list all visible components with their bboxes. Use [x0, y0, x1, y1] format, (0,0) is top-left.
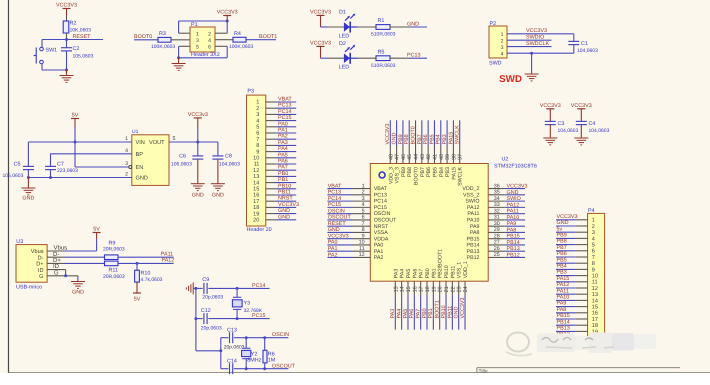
svg-text:PB9: PB9 [398, 134, 404, 144]
svg-text:R5: R5 [378, 49, 385, 55]
svg-text:VSS_3: VSS_3 [395, 167, 401, 184]
svg-text:OSCIN: OSCIN [374, 211, 391, 217]
svg-text:C4: C4 [589, 121, 596, 127]
svg-text:D-: D- [38, 255, 44, 261]
svg-text:ID: ID [38, 268, 44, 274]
svg-text:PA1: PA1 [328, 246, 338, 252]
svg-text:3: 3 [592, 230, 595, 236]
svg-text:GND: GND [507, 190, 519, 196]
svg-text:U1: U1 [132, 129, 139, 135]
svg-text:GND: GND [557, 220, 569, 226]
svg-text:12: 12 [592, 286, 598, 292]
svg-text:3: 3 [501, 45, 504, 51]
svg-text:17: 17 [253, 199, 259, 205]
svg-text:PC15: PC15 [374, 205, 387, 211]
svg-text:PB0: PB0 [422, 308, 428, 318]
svg-text:16: 16 [412, 286, 418, 292]
svg-text:21: 21 [444, 286, 450, 292]
svg-text:PA4: PA4 [400, 269, 406, 279]
svg-text:SW1: SW1 [46, 48, 58, 54]
svg-text:46: 46 [401, 154, 407, 160]
svg-text:PA6: PA6 [409, 309, 415, 319]
svg-text:20R,0603: 20R,0603 [103, 247, 125, 253]
svg-text:R11: R11 [109, 268, 119, 274]
svg-text:SWD: SWD [499, 74, 522, 85]
svg-text:510R,0603: 510R,0603 [371, 32, 396, 38]
svg-text:5V: 5V [93, 227, 100, 233]
svg-text:PA3: PA3 [278, 140, 288, 146]
svg-text:PA11: PA11 [557, 288, 569, 294]
svg-text:4: 4 [208, 38, 211, 44]
svg-text:18: 18 [425, 286, 431, 292]
svg-text:PB6: PB6 [426, 167, 432, 177]
svg-text:PB15: PB15 [467, 236, 480, 242]
svg-text:24: 24 [463, 286, 469, 292]
svg-text:47: 47 [395, 154, 401, 160]
svg-text:PA11: PA11 [467, 211, 479, 217]
svg-text:PC15: PC15 [278, 115, 292, 121]
svg-text:PB1: PB1 [428, 308, 434, 318]
svg-text:PB11: PB11 [450, 266, 456, 279]
svg-text:PB3: PB3 [442, 134, 448, 144]
svg-text:PB6: PB6 [423, 134, 429, 144]
svg-text:PB1: PB1 [431, 268, 437, 278]
svg-text:VCC3V3: VCC3V3 [540, 103, 561, 109]
svg-text:OSCOUT: OSCOUT [328, 215, 352, 221]
svg-text:P1: P1 [191, 22, 198, 28]
svg-text:GND: GND [278, 214, 290, 220]
svg-text:18: 18 [592, 323, 598, 329]
svg-text:PA3: PA3 [393, 269, 399, 279]
svg-text:SWDCLK: SWDCLK [526, 41, 549, 47]
svg-text:2: 2 [256, 106, 259, 112]
svg-text:R10: R10 [141, 271, 151, 277]
svg-text:Header 20: Header 20 [247, 227, 272, 233]
svg-text:VCC3V3: VCC3V3 [507, 184, 528, 190]
svg-text:VCC3V3: VCC3V3 [310, 40, 331, 46]
svg-text:23: 23 [457, 286, 463, 292]
svg-text:PB7: PB7 [417, 134, 423, 144]
svg-text:PA6: PA6 [412, 269, 418, 279]
svg-text:PC13: PC13 [374, 192, 387, 198]
svg-text:C8: C8 [225, 153, 232, 159]
svg-text:C9: C9 [202, 277, 209, 283]
svg-text:U3: U3 [16, 239, 23, 245]
svg-text:VSSA: VSSA [374, 230, 389, 236]
svg-text:VBAT: VBAT [374, 186, 388, 192]
svg-text:VCC3V3: VCC3V3 [460, 298, 466, 319]
svg-text:Header 3X2: Header 3X2 [191, 52, 220, 58]
svg-text:PA6: PA6 [278, 159, 288, 165]
svg-text:PA2: PA2 [328, 252, 338, 258]
svg-text:1: 1 [501, 32, 504, 38]
svg-text:PB15: PB15 [507, 234, 520, 240]
svg-text:105,0603: 105,0603 [73, 54, 94, 60]
svg-text:PA3: PA3 [390, 309, 396, 319]
svg-text:16: 16 [592, 311, 598, 317]
svg-text:37: 37 [458, 154, 464, 160]
svg-text:104,0603: 104,0603 [558, 128, 579, 134]
svg-text:D2: D2 [339, 41, 346, 47]
svg-text:100K,0603: 100K,0603 [151, 44, 175, 50]
svg-text:GND: GND [72, 290, 84, 296]
svg-text:R2: R2 [70, 21, 77, 27]
svg-text:PA4: PA4 [397, 309, 403, 319]
svg-text:PA12: PA12 [162, 258, 175, 264]
svg-text:PB4: PB4 [439, 167, 445, 177]
svg-text:3: 3 [196, 38, 199, 44]
svg-text:U2: U2 [502, 156, 509, 162]
svg-text:PB10: PB10 [444, 265, 450, 278]
svg-text:BP: BP [136, 152, 144, 158]
svg-text:VCC3V3: VCC3V3 [526, 28, 547, 34]
svg-text:PB3: PB3 [557, 270, 567, 276]
svg-text:PB14: PB14 [557, 319, 570, 325]
svg-text:PA10: PA10 [557, 295, 570, 301]
svg-text:14: 14 [400, 286, 406, 292]
svg-text:PB6: PB6 [557, 251, 567, 257]
svg-text:VBAT: VBAT [328, 183, 342, 189]
svg-text:PA8: PA8 [507, 227, 517, 233]
svg-text:PC13: PC13 [407, 53, 421, 59]
svg-text:SWIO: SWIO [465, 199, 479, 205]
svg-text:39: 39 [445, 154, 451, 160]
svg-text:VCC3V3: VCC3V3 [310, 9, 331, 15]
svg-text:106,0603: 106,0603 [171, 161, 192, 167]
svg-text:C13: C13 [227, 327, 237, 333]
svg-text:13: 13 [393, 286, 399, 292]
svg-text:18: 18 [253, 205, 259, 211]
svg-text:VCC3V3: VCC3V3 [278, 202, 299, 208]
svg-text:D-: D- [53, 251, 59, 258]
svg-text:GND: GND [136, 176, 148, 182]
svg-text:GND: GND [407, 22, 419, 28]
svg-text:P2: P2 [490, 21, 497, 27]
svg-text:1: 1 [125, 136, 128, 142]
svg-text:SWCLK: SWCLK [455, 125, 461, 145]
svg-text:GND: GND [392, 132, 398, 144]
svg-text:PB13: PB13 [557, 326, 570, 332]
svg-text:GND: GND [278, 208, 290, 214]
svg-text:2: 2 [125, 172, 128, 178]
svg-text:PC15: PC15 [328, 202, 342, 208]
svg-text:PB0: PB0 [278, 171, 288, 177]
svg-text:PB8: PB8 [557, 239, 567, 245]
svg-text:100K,0603: 100K,0603 [229, 44, 253, 50]
svg-text:C14: C14 [227, 358, 237, 364]
svg-text:9: 9 [592, 267, 595, 273]
svg-text:PB10: PB10 [278, 183, 291, 189]
svg-text:R4: R4 [234, 31, 241, 37]
svg-text:D+: D+ [53, 257, 61, 264]
svg-text:NRST: NRST [278, 196, 293, 202]
svg-text:PB8: PB8 [404, 134, 410, 144]
svg-text:7: 7 [256, 137, 259, 143]
svg-text:PA7: PA7 [419, 269, 425, 279]
svg-text:10: 10 [592, 274, 598, 280]
svg-text:PB2/BOOT1: PB2/BOOT1 [438, 249, 444, 278]
svg-text:16: 16 [253, 193, 259, 199]
svg-text:D1: D1 [339, 10, 346, 16]
svg-text:104,0603: 104,0603 [577, 48, 598, 54]
svg-text:PA10: PA10 [507, 215, 520, 221]
svg-text:8: 8 [592, 261, 595, 267]
svg-text:VCC3V3: VCC3V3 [56, 3, 77, 9]
svg-text:PA12: PA12 [507, 202, 520, 208]
svg-text:P3: P3 [247, 89, 254, 95]
svg-text:GND: GND [454, 306, 460, 318]
svg-text:R3: R3 [159, 31, 166, 37]
svg-text:SWCLK: SWCLK [458, 167, 464, 186]
svg-text:PA1: PA1 [374, 249, 384, 255]
svg-text:PC14: PC14 [374, 199, 387, 205]
svg-text:42: 42 [426, 154, 432, 160]
svg-text:5V: 5V [134, 297, 141, 303]
svg-text:PB5: PB5 [429, 134, 435, 144]
svg-text:13: 13 [253, 174, 259, 180]
svg-text:EN: EN [136, 165, 144, 171]
svg-text:C2: C2 [73, 46, 80, 52]
svg-text:C5: C5 [14, 161, 21, 167]
svg-text:C7: C7 [57, 162, 64, 168]
svg-text:43: 43 [420, 154, 426, 160]
svg-text:PB12: PB12 [507, 252, 520, 258]
svg-text:SWIO: SWIO [507, 196, 521, 202]
svg-text:PA0: PA0 [278, 121, 288, 127]
svg-text:19: 19 [431, 286, 437, 292]
svg-text:NRST: NRST [374, 224, 389, 230]
svg-text:PB12: PB12 [467, 255, 480, 261]
svg-text:PB14: PB14 [507, 240, 520, 246]
svg-text:223,0603: 223,0603 [57, 168, 78, 174]
svg-text:15: 15 [253, 187, 259, 193]
svg-text:3: 3 [256, 112, 259, 118]
svg-text:SWD: SWD [489, 61, 502, 67]
svg-text:5: 5 [256, 125, 259, 131]
svg-text:VCC3v3: VCC3v3 [188, 112, 208, 118]
svg-text:OSCOUT: OSCOUT [374, 218, 397, 224]
svg-text:RESET: RESET [328, 221, 347, 227]
svg-text:VBAT: VBAT [278, 97, 292, 103]
svg-text:22: 22 [450, 286, 456, 292]
svg-text:6: 6 [256, 131, 259, 137]
svg-text:PA1: PA1 [278, 128, 288, 134]
svg-text:Y3: Y3 [244, 301, 251, 307]
svg-text:4: 4 [125, 148, 128, 154]
svg-text:44: 44 [414, 154, 420, 160]
svg-text:5: 5 [196, 45, 199, 51]
svg-text:Y2: Y2 [251, 351, 258, 357]
svg-text:VDD_2: VDD_2 [462, 186, 479, 192]
svg-text:R9: R9 [109, 241, 116, 247]
svg-text:PA10: PA10 [467, 218, 480, 224]
svg-text:SWDIO: SWDIO [526, 35, 544, 41]
svg-text:15: 15 [406, 286, 412, 292]
svg-text:PC14: PC14 [252, 283, 266, 289]
svg-text:104,0603: 104,0603 [589, 128, 610, 134]
svg-text:20p,0603: 20p,0603 [224, 345, 245, 351]
svg-text:VDD_1: VDD_1 [463, 261, 469, 278]
svg-text:BOOT1: BOOT1 [259, 34, 277, 40]
svg-text:6: 6 [208, 45, 211, 51]
svg-text:PA5: PA5 [406, 269, 412, 279]
svg-text:5: 5 [592, 243, 595, 249]
svg-text:PC14: PC14 [328, 196, 342, 202]
svg-text:4: 4 [592, 236, 595, 242]
svg-text:VSS_2: VSS_2 [463, 192, 480, 198]
svg-text:10: 10 [253, 156, 259, 162]
svg-text:PA7: PA7 [416, 309, 422, 319]
svg-text:BOOT0: BOOT0 [410, 126, 416, 144]
svg-text:2: 2 [592, 224, 595, 230]
svg-text:PA2: PA2 [374, 255, 384, 261]
svg-text:20p,0603: 20p,0603 [201, 326, 222, 332]
svg-text:C3: C3 [558, 121, 565, 127]
svg-text:PA15: PA15 [557, 276, 570, 282]
svg-text:PB4: PB4 [557, 264, 567, 270]
svg-text:PC13: PC13 [278, 103, 292, 109]
svg-text:14: 14 [253, 180, 259, 186]
svg-text:VCC3V3: VCC3V3 [571, 103, 592, 109]
svg-text:PB0: PB0 [425, 268, 431, 278]
svg-text:PB1: PB1 [278, 177, 288, 183]
svg-text:4: 4 [501, 51, 504, 57]
svg-text:D+: D+ [36, 262, 43, 268]
svg-text:45: 45 [407, 154, 413, 160]
svg-text:USB-mrico: USB-mrico [16, 284, 42, 290]
svg-text:PB7: PB7 [420, 167, 426, 177]
svg-text:GND: GND [328, 227, 340, 233]
svg-text:PA8: PA8 [557, 307, 567, 313]
svg-text:PB5: PB5 [432, 167, 438, 177]
svg-text:GND: GND [192, 193, 204, 199]
svg-text:5v: 5v [557, 226, 563, 232]
svg-text:PA0: PA0 [374, 243, 384, 249]
svg-text:PA5: PA5 [278, 152, 288, 158]
svg-text:2: 2 [208, 31, 211, 37]
svg-text:11: 11 [592, 280, 598, 286]
svg-text:OSCIN: OSCIN [328, 208, 345, 214]
svg-text:PB7: PB7 [557, 245, 567, 251]
svg-text:5V: 5V [72, 113, 79, 119]
svg-text:41: 41 [432, 154, 438, 160]
svg-text:PA11: PA11 [161, 251, 173, 257]
svg-text:1: 1 [592, 218, 595, 224]
svg-text:PA9: PA9 [507, 221, 517, 227]
svg-text:5: 5 [173, 136, 176, 142]
svg-text:R1: R1 [378, 18, 385, 24]
svg-text:STM32F103C8T6: STM32F103C8T6 [494, 164, 537, 170]
svg-text:20: 20 [438, 286, 444, 292]
svg-text:VDD_3: VDD_3 [388, 167, 394, 184]
svg-text:104,0603: 104,0603 [219, 161, 240, 167]
svg-text:LED: LED [339, 33, 350, 39]
svg-text:10K,0603: 10K,0603 [70, 28, 92, 34]
svg-text:PB9: PB9 [557, 233, 567, 239]
svg-text:PB11: PB11 [278, 190, 291, 196]
svg-text:4.7k,0603: 4.7k,0603 [141, 277, 163, 283]
svg-text:PA9: PA9 [470, 224, 480, 230]
svg-text:8MHz: 8MHz [247, 358, 261, 364]
svg-text:OSCOUT: OSCOUT [272, 363, 296, 369]
svg-text:PA15: PA15 [448, 132, 454, 145]
svg-text:PB14: PB14 [467, 243, 480, 249]
svg-text:Title: Title [479, 368, 488, 374]
svg-text:11: 11 [254, 162, 260, 168]
svg-text:OSCIN: OSCIN [272, 332, 289, 338]
svg-text:PA7: PA7 [278, 165, 288, 171]
svg-text:GND: GND [22, 196, 34, 202]
svg-text:PB13: PB13 [467, 249, 480, 255]
svg-text:PA2: PA2 [278, 134, 288, 140]
svg-text:VCC3V3: VCC3V3 [328, 233, 349, 239]
svg-text:12: 12 [253, 168, 259, 174]
svg-text:BOOT0: BOOT0 [134, 34, 152, 40]
svg-text:G: G [39, 274, 43, 280]
svg-text:BOOT1: BOOT1 [435, 300, 441, 318]
svg-text:19: 19 [253, 211, 259, 217]
svg-text:1: 1 [196, 31, 199, 37]
svg-text:2: 2 [501, 38, 504, 44]
svg-text:PA12: PA12 [557, 282, 570, 288]
svg-text:14: 14 [592, 298, 598, 304]
svg-text:Vbus: Vbus [31, 248, 44, 255]
svg-text:VCC3V3: VCC3V3 [385, 124, 391, 145]
svg-text:PA4: PA4 [278, 146, 288, 152]
svg-text:3: 3 [125, 161, 128, 167]
svg-text:PA0: PA0 [328, 240, 338, 246]
svg-text:PB5: PB5 [557, 257, 567, 263]
svg-text:PC15: PC15 [252, 313, 266, 319]
svg-text:C6: C6 [179, 153, 186, 159]
svg-text:13: 13 [592, 292, 598, 298]
svg-text:PA11: PA11 [507, 209, 519, 215]
svg-text:VIN: VIN [136, 140, 145, 146]
svg-text:PB10: PB10 [441, 305, 447, 318]
svg-text:8: 8 [256, 143, 259, 149]
svg-text:PB8: PB8 [407, 167, 413, 177]
svg-text:4: 4 [256, 118, 259, 124]
svg-text:510R,0603: 510R,0603 [371, 63, 396, 69]
svg-text:20: 20 [253, 218, 259, 224]
svg-text:PB3: PB3 [445, 167, 451, 177]
svg-text:1: 1 [256, 100, 259, 106]
svg-text:PA15: PA15 [451, 167, 457, 180]
svg-text:PC14: PC14 [278, 109, 292, 115]
svg-text:PA12: PA12 [467, 205, 480, 211]
svg-text:LED: LED [339, 65, 350, 71]
svg-text:PB9: PB9 [401, 167, 407, 177]
svg-text:VCC3V3: VCC3V3 [557, 214, 578, 220]
svg-text:48: 48 [388, 154, 394, 160]
svg-text:GND: GND [212, 193, 224, 199]
svg-text:VOUT: VOUT [149, 140, 165, 146]
svg-text:PA8: PA8 [470, 230, 480, 236]
svg-text:BOOT0: BOOT0 [414, 167, 420, 185]
svg-text:PB4: PB4 [436, 134, 442, 144]
svg-text:PB11: PB11 [447, 306, 453, 319]
svg-text:6: 6 [592, 249, 595, 255]
svg-text:PB15: PB15 [557, 313, 570, 319]
svg-text:G: G [54, 269, 59, 276]
svg-text:VSS_1: VSS_1 [457, 262, 463, 279]
svg-text:17: 17 [419, 286, 425, 292]
svg-text:20p,0603: 20p,0603 [202, 294, 223, 300]
svg-text:105,0603: 105,0603 [3, 173, 24, 179]
svg-text:P4: P4 [588, 208, 595, 214]
svg-text:C12: C12 [201, 308, 211, 314]
svg-text:17: 17 [592, 317, 598, 323]
